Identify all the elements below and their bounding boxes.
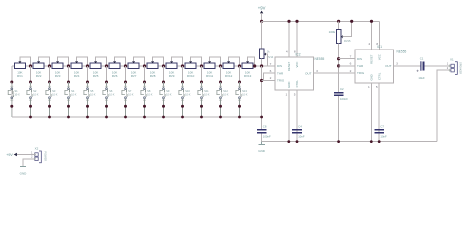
svg-text:VCC: VCC [378,54,382,60]
svg-text:NE555: NE555 [397,50,407,54]
capacitor C1 10uF (polarized, output coupling) [417,57,425,80]
svg-text:RESET: RESET [370,54,374,64]
wire: wiper arch of RV5 [96,57,107,66]
svg-text:7: 7 [270,62,272,66]
node: chain junction J1 [29,64,32,67]
power +9V supply arrow (power input) [6,153,34,157]
svg-text:5: 5 [294,92,296,96]
node: chain junction J12 [238,64,241,67]
wire: wiper arch of RV10 [191,57,202,66]
capacitor C2 10nF [334,87,348,101]
wire: wiper arch of RV1 [20,57,31,66]
node: IC2 CTRL pin on ground bus [296,140,299,143]
ground symbol GND (power input) [20,166,28,175]
svg-text:RV3: RV3 [55,74,61,78]
svg-text:OUT: OUT [385,64,392,68]
svg-text:10-X: 10-X [14,93,20,96]
svg-text:4: 4 [286,49,288,53]
node: +9V rail junction [260,20,263,23]
svg-text:IC1: IC1 [377,45,382,49]
svg-text:TRIG: TRIG [277,79,285,83]
potentiometer RV1 10K [14,61,25,78]
switch S8 (push button key) [141,81,153,118]
node: node X TRIG tap [260,79,263,82]
wire: rail down to trimmer RV15 [338,21,340,29]
node: switch S13 to key bus [238,116,241,119]
capacitor C7 10nF (IC1 CTRL bypass) [374,124,387,138]
svg-text:100nF: 100nF [263,135,271,139]
wire: drop from junction J1 to switch S2 [30,66,32,82]
svg-text:DIS: DIS [277,64,282,68]
svg-text:RV12: RV12 [225,74,233,78]
wire: drop from junction J7 to switch S8 [144,66,146,82]
node: RV15 wiper on rail [350,20,353,23]
svg-text:C1: C1 [420,57,424,61]
svg-text:RV7: RV7 [131,74,137,78]
ground symbol GND (under C8) [258,142,266,153]
svg-text:10-X: 10-X [223,93,229,96]
svg-text:IC2: IC2 [296,53,301,57]
svg-text:7: 7 [350,55,352,59]
node: IC1 GND pin on ground bus [370,140,373,143]
svg-text:10-X: 10-X [90,93,96,96]
node: chain junction J2 [48,64,51,67]
svg-text:6: 6 [270,69,272,73]
svg-text:2: 2 [350,69,352,73]
svg-text:10-X: 10-X [147,93,153,96]
node: switch S8 to key bus [143,116,146,119]
potentiometer RV2 10K [33,61,44,78]
svg-text:10-X: 10-X [128,93,134,96]
wire: DIS line to IC1 pin 7 [339,58,355,60]
wire: ground bus [262,141,437,143]
svg-text:NE555: NE555 [315,57,325,61]
node: chain junction after RV13 [253,64,256,67]
potentiometer RV3 10K [52,61,63,78]
node: chain junction J7 [143,64,146,67]
potentiometer RV12 10K [223,61,234,78]
switch S4 (push button key) [65,81,77,118]
wire: C1 to speaker connector X1 pin1 [425,65,450,67]
wire: key bus (bottom of switches) [12,116,262,118]
node: rail junction at RV15 [337,20,340,23]
capacitor C8 100nF (timing) [257,124,271,138]
svg-text:RV4: RV4 [74,74,80,78]
node: IC2 GND pin on ground bus [287,140,290,143]
node: C2 on ground bus [337,140,340,143]
wire: drop from junction J6 to switch S7 [125,66,127,82]
wire: wiper arch of RV13 [248,57,255,66]
svg-text:10nF: 10nF [380,135,387,139]
wire: drop from junction J10 to switch S11 [201,66,203,82]
svg-text:4: 4 [368,42,370,46]
wire: RV15 bottom down through DIS/THR to C2 [338,44,340,92]
wire: drop from junction J8 to switch S9 [163,66,165,82]
svg-text:GND: GND [369,74,373,80]
wire: drop from junction J12 to switch S13 [239,66,241,82]
svg-text:C2: C2 [340,87,344,91]
node: chain junction J4 [86,64,89,67]
switch S2 (push button key) [27,81,39,118]
node: switch S6 to key bus [105,116,108,119]
op-amp/timer IC1 NE555 [350,21,407,141]
svg-text:S9: S9 [166,89,170,93]
svg-text:100nF: 100nF [340,97,348,101]
svg-text:RV10: RV10 [187,74,195,78]
svg-text:RV9: RV9 [169,74,175,78]
svg-text:10-X: 10-X [242,93,248,96]
wire: RV15 wiper tied to rail [343,21,352,36]
power +9V supply arrow (top) [258,6,266,22]
svg-text:+9V: +9V [258,6,266,11]
potentiometer RV10 10K [185,61,196,78]
svg-text:DIS: DIS [357,57,362,61]
svg-text:S12: S12 [223,89,228,93]
node: IC1 CTRL pin on ground bus [378,140,381,143]
svg-text:C7: C7 [380,124,384,128]
svg-text:2: 2 [447,66,449,70]
svg-text:3: 3 [316,69,318,73]
wire: THR link to IC2 pin 6 [264,73,275,81]
node: junction with IC1 DIS line [337,57,340,60]
node: chain junction J3 [67,64,70,67]
svg-text:S11: S11 [204,89,209,93]
svg-text:6: 6 [350,62,352,66]
svg-text:TRIG: TRIG [357,71,365,75]
node: chain junction J8 [162,64,165,67]
svg-text:1: 1 [31,150,33,154]
svg-text:THR: THR [277,71,284,75]
wire: IC1 OUT to C1 [394,65,421,67]
svg-text:X2: X2 [35,147,39,151]
switch S13 (push button key) [236,81,248,118]
svg-text:GND: GND [287,82,291,88]
capacitor C4 10nF (IC2 CTRL bypass) [292,124,305,138]
wire: wiper arch of RV8 [153,57,164,66]
connector X2 POWER [31,147,48,163]
svg-text:POWER: POWER [44,151,48,161]
switch S1 (push button key) [8,81,20,118]
svg-text:1: 1 [368,85,370,89]
svg-text:10-X: 10-X [52,93,58,96]
wire: C8 to ground bus [261,134,263,142]
op-amp/timer IC2 NE555 [270,21,325,141]
wire: C2 to ground bus [338,96,340,142]
switch S9 (push button key) [160,81,172,118]
potentiometer RV4 10K [71,61,82,78]
svg-text:3: 3 [396,62,398,66]
wire: drop from junction J2 to switch S3 [49,66,51,82]
node: switch S10 to key bus [181,116,184,119]
wire: TRIG line to IC2 pin 2 [262,80,275,82]
wire: X1 pin2 return to ground bus [437,70,450,141]
svg-text:RV15: RV15 [344,39,351,43]
wire: X2 pin2 to ground [23,159,35,166]
potentiometer RV13 10K [242,61,253,78]
node: switch S7 to key bus [124,116,127,119]
svg-text:2: 2 [31,155,33,159]
svg-text:5: 5 [376,85,378,89]
svg-text:S10: S10 [185,89,190,93]
svg-text:THR: THR [357,64,364,68]
svg-text:1: 1 [286,92,288,96]
svg-text:S6: S6 [109,89,113,93]
switch S7 (push button key) [122,81,134,118]
svg-text:VCC: VCC [295,62,299,68]
potentiometer RV11 10K [204,61,215,78]
node: switch S3 to key bus [48,116,51,119]
svg-text:S2: S2 [33,89,37,93]
wire: RV14 bottom to node X [261,59,263,66]
switch S10 (push button key) [179,81,191,118]
potentiometer RV9 10K [166,61,177,78]
node: switch S11 to key bus [200,116,203,119]
svg-text:1k: 1k [267,50,270,54]
wire: drop from junction J4 to switch S5 [87,66,89,82]
switch S6 (push button key) [103,81,115,118]
svg-text:S1: S1 [14,89,18,93]
wire: left end drop (chain left end to switch S1) [11,66,13,117]
switch S11 (push button key) [198,81,210,118]
wire: drop from junction J5 to switch S6 [106,66,108,82]
trimmer potentiometer RV14 1k (vertical) [259,49,273,59]
svg-text:1: 1 [447,62,449,66]
svg-text:RV2: RV2 [36,74,42,78]
node: chain junction J10 [200,64,203,67]
node: node X on chain (DIS/THR/TRIG net) [260,64,263,67]
potentiometer RV7 10K [128,61,139,78]
svg-text:10-X: 10-X [185,93,191,96]
switch S5 (push button key) [84,81,96,118]
wire: IC2 OUT to IC1 TRIG [314,72,356,74]
node: chain junction J11 [219,64,222,67]
svg-text:CTRL: CTRL [295,80,299,88]
node: switch S2 to key bus [29,116,32,119]
svg-text:RV8: RV8 [150,74,156,78]
svg-text:2: 2 [270,76,272,80]
svg-text:10nF: 10nF [298,135,305,139]
node: junction with IC1 THR line [337,64,340,67]
node: switch S5 to key bus [86,116,89,119]
svg-text:S13: S13 [242,89,247,93]
svg-text:100k: 100k [329,30,336,34]
potentiometer RV6 10K [109,61,120,78]
wire: wiper arch of RV11 [210,57,221,66]
node: chain junction J9 [181,64,184,67]
svg-text:10-X: 10-X [33,93,39,96]
svg-text:CTRL: CTRL [377,72,381,80]
node: switch S4 to key bus [67,116,70,119]
svg-text:SPEAKER: SPEAKER [458,62,462,74]
svg-text:RV6: RV6 [112,74,118,78]
trimmer potentiometer RV15 100k (vertical) [329,30,351,44]
svg-text:RV13: RV13 [244,74,252,78]
connector X1 SPEAKER [447,57,463,74]
svg-text:10-X: 10-X [109,93,115,96]
wire: wiper arch of RV9 [172,57,183,66]
node: switch S12 to key bus [219,116,222,119]
node: chain junction J6 [124,64,127,67]
wire: drop from junction J11 to switch S12 [220,66,222,82]
wire: pot chain horizontal net [12,65,275,67]
svg-text:S7: S7 [128,89,132,93]
svg-text:RV5: RV5 [93,74,99,78]
svg-text:10uF: 10uF [418,76,425,80]
svg-text:RV1: RV1 [17,74,23,78]
svg-text:OUT: OUT [305,71,312,75]
wire: wiper arch of RV3 [58,57,69,66]
wire: THR line to IC1 pin 6 [339,65,355,67]
node: switch S9 to key bus [162,116,165,119]
wire: node X down to timing cap C8 [261,66,263,129]
node: IC2 pin8 on rail [295,20,298,23]
svg-text:+9V: +9V [6,153,13,157]
svg-text:10-X: 10-X [166,93,172,96]
svg-text:X1: X1 [450,57,454,61]
wire: wiper arch of RV2 [39,57,50,66]
svg-text:S4: S4 [71,89,75,93]
wire: drop from junction J9 to switch S10 [182,66,184,82]
node: IC1 pin4 on rail [370,20,373,23]
svg-text:S3: S3 [52,89,56,93]
svg-text:GND: GND [258,149,266,153]
svg-text:C8: C8 [263,124,267,128]
svg-text:10-X: 10-X [71,93,77,96]
wire: wiper arch of RV12 [229,57,240,66]
wire: +9V down to trimmer RV14 [261,21,263,49]
svg-text:S8: S8 [147,89,151,93]
svg-text:S5: S5 [90,89,94,93]
svg-text:10-X: 10-X [204,93,210,96]
node: IC2 pin4 on rail [287,20,290,23]
svg-text:GND: GND [20,171,28,175]
svg-text:RESET: RESET [287,62,291,72]
wire: wiper arch of RV6 [115,57,126,66]
switch S3 (push button key) [46,81,58,118]
wire: wiper arch of RV4 [77,57,88,66]
potentiometer RV5 10K [90,61,101,78]
wire: +9V top rail [262,20,380,22]
wire: RV14 wiper to bottom terminal [266,54,268,66]
node: chain junction J5 [105,64,108,67]
node: key bus joins node X [260,116,263,119]
svg-text:RV11: RV11 [206,74,214,78]
potentiometer RV8 10K [147,61,158,78]
svg-text:C4: C4 [298,124,302,128]
switch S12 (push button key) [217,81,229,118]
wire: wiper arch of RV7 [134,57,145,66]
wire: drop from junction J3 to switch S4 [68,66,70,82]
